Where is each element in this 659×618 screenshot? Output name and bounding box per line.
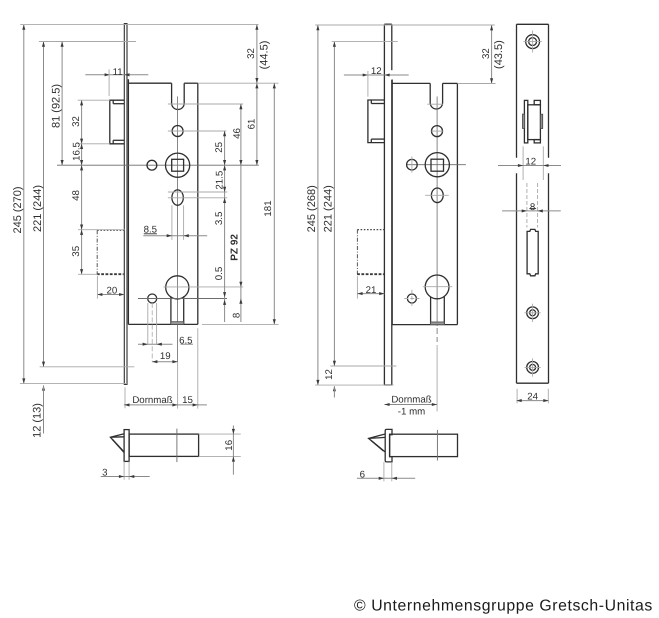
left lock hole left of cylinder — [148, 294, 157, 303]
left latch body — [129, 434, 199, 456]
svg-text:8: 8 — [530, 202, 535, 213]
dimension 32 (44.5) — [256, 25, 258, 84]
middle lock case outline — [391, 80, 393, 325]
extension line y274.3 — [78, 273, 98, 275]
dimension 8 cylinder cutout — [526, 183, 528, 228]
middle lock follower with square spindle hole — [425, 153, 449, 177]
middle latch faceplate channel profile — [385, 429, 392, 462]
dimension 245 (270) left — [23, 25, 25, 384]
svg-text:15: 15 — [182, 395, 193, 406]
svg-text:245 (270): 245 (270) — [12, 186, 24, 233]
extension line y41.5 left — [39, 41, 136, 43]
svg-text:© Unternehmensgruppe Gretsch-U: © Unternehmensgruppe Gretsch-Unitas — [354, 598, 653, 615]
svg-text:12: 12 — [371, 66, 382, 77]
bracket extension lines — [78, 99, 110, 101]
middle lock bracket on faceplate — [368, 100, 385, 143]
dimension 24 — [516, 389, 518, 404]
dimension 21.5 — [223, 165, 226, 170]
svg-text:12 (13): 12 (13) — [32, 403, 44, 438]
left latch bevel head — [110, 434, 124, 453]
dimension 6 latch — [383, 462, 385, 481]
left lock dashed cutout box — [97, 229, 124, 231]
left lock vertical centre line — [177, 96, 179, 362]
dimension 25 — [224, 131, 226, 322]
extension line y383.6 left — [20, 383, 127, 385]
middle lock oval hole — [431, 188, 443, 203]
svg-text:11: 11 — [113, 67, 123, 78]
middle Dornmass dimension — [436, 345, 438, 411]
svg-text:3.5: 3.5 — [214, 212, 225, 225]
svg-text:32: 32 — [246, 48, 257, 59]
dimension 16 latch — [199, 433, 241, 435]
left lock faceplate (Stulp) — [124, 24, 127, 385]
dimension 8.5 — [171, 205, 173, 240]
svg-text:32: 32 — [481, 48, 492, 59]
extension line y229.7 — [78, 229, 125, 231]
middle latch centre line — [436, 430, 438, 461]
svg-text:0.5: 0.5 — [214, 267, 225, 280]
svg-text:3: 3 — [102, 468, 107, 479]
left lock horizontal centre line (follower axis) — [57, 164, 259, 166]
svg-text:46: 46 — [232, 128, 243, 139]
dimension 181 — [273, 83, 275, 324]
svg-text:21: 21 — [366, 285, 377, 296]
middle lock upper hole — [432, 126, 443, 137]
dimension 12 keeper — [522, 146, 524, 180]
svg-text:245 (268): 245 (268) — [306, 185, 318, 232]
dimension 20 — [97, 294, 124, 296]
left lock cylinder centre extension line — [163, 286, 243, 288]
dimension 35 — [81, 230, 83, 275]
middle lock dashed cutout box — [357, 229, 384, 231]
left lock oval extension lines — [168, 191, 227, 193]
dimension 245 (268) middle — [317, 25, 319, 385]
svg-text:16: 16 — [224, 440, 235, 451]
svg-text:(44.5): (44.5) — [258, 41, 270, 70]
left lock slot-bottom extension line — [168, 103, 243, 105]
svg-text:61: 61 — [247, 119, 258, 130]
middle lock cylinder stem bottom bar — [431, 322, 445, 325]
dimension 12 bottom middle — [333, 386, 336, 391]
left lock top slot (U) — [172, 83, 185, 109]
case top extension middle — [457, 82, 459, 84]
svg-text:Dornmaß: Dornmaß — [391, 394, 431, 405]
svg-text:Dornmaß: Dornmaß — [132, 395, 172, 406]
left lock upper hole extension line — [168, 130, 226, 132]
left Dornmass dimension — [124, 387, 126, 408]
middle lock hole left of follower — [407, 159, 418, 170]
middle lock slot-bottom extension line — [427, 103, 443, 105]
svg-text:PZ 92: PZ 92 — [229, 234, 240, 261]
extension line y366.8 left — [40, 366, 135, 368]
svg-text:16.5: 16.5 — [71, 142, 82, 161]
middle latch body — [390, 434, 458, 456]
svg-text:24: 24 — [527, 392, 538, 403]
svg-text:25: 25 — [214, 142, 225, 153]
middle lock hole left of cylinder — [407, 294, 416, 303]
dimension 11 — [85, 74, 148, 76]
svg-text:12: 12 — [525, 156, 536, 167]
middle lock cylinder centre extension line — [423, 286, 453, 288]
left lock hole left of follower — [147, 160, 157, 170]
svg-text:(43.5): (43.5) — [493, 40, 505, 69]
middle latch bevel head — [369, 434, 386, 452]
left lock hole extension line — [138, 298, 227, 300]
svg-text:32: 32 — [71, 116, 82, 127]
left latch centre line — [176, 429, 178, 463]
strike plate bottom screw hole — [527, 362, 539, 374]
dimension 81 (92.5) — [61, 42, 63, 166]
middle lock faceplate — [383, 24, 385, 385]
dimension 48 — [81, 165, 83, 230]
middle lock top slot (U) — [430, 83, 442, 109]
svg-text:21.5: 21.5 — [215, 171, 226, 190]
left lock bracket on faceplate — [110, 100, 125, 144]
svg-text:181: 181 — [263, 200, 274, 216]
case bottom extension line right — [202, 323, 279, 325]
left lock case outline — [127, 79, 129, 324]
dimension 61 — [256, 83, 258, 165]
svg-text:81 (92.5): 81 (92.5) — [51, 84, 63, 128]
dimension 19 — [151, 303, 153, 362]
dimension 6.5 — [147, 303, 149, 344]
dimension 221 (244) left — [43, 42, 45, 367]
dimension 3 latch — [123, 461, 125, 479]
strike plate cylinder cutout — [527, 229, 538, 275]
case top extension line right — [198, 82, 279, 84]
svg-text:221 (244): 221 (244) — [32, 185, 44, 232]
left lock follower with square spindle hole — [166, 153, 190, 177]
svg-text:8: 8 — [231, 313, 242, 318]
svg-text:35: 35 — [71, 246, 82, 257]
dimension 0.5 — [223, 292, 226, 297]
middle lock vertical centre line — [436, 97, 438, 327]
strike plate latch keeper — [524, 100, 527, 142]
dimension 8 — [239, 282, 242, 287]
dimension 12 top middle — [344, 74, 409, 76]
svg-text:221 (244): 221 (244) — [323, 185, 335, 232]
left lock oval hole — [172, 190, 183, 205]
strike plate outline — [516, 24, 518, 158]
svg-text:48: 48 — [71, 190, 82, 201]
left lock cylinder stem bottom bar — [171, 322, 184, 325]
left lock upper hole — [172, 126, 183, 137]
dimension 46 — [240, 104, 242, 322]
dimension 221 (244) middle — [333, 42, 335, 366]
middle lock horizontal centre line — [406, 164, 466, 166]
dimension top extension line left — [20, 24, 258, 26]
dimension 21 middle — [356, 276, 358, 298]
svg-text:19: 19 — [160, 351, 171, 362]
middle lock cylinder hole (PZ) — [425, 275, 449, 299]
svg-text:12: 12 — [324, 369, 335, 380]
dimension 32 bracket — [81, 100, 83, 144]
left latch faceplate cross-section — [124, 430, 129, 462]
dimension 3.5 — [223, 198, 226, 203]
strike plate middle screw hole — [527, 307, 539, 319]
svg-text:20: 20 — [107, 286, 118, 297]
strike plate top screw hole — [526, 35, 540, 49]
svg-text:6.5: 6.5 — [179, 336, 192, 347]
svg-text:6: 6 — [360, 469, 365, 480]
dimension 12 (13) — [42, 385, 45, 390]
svg-text:-1 mm: -1 mm — [398, 406, 425, 417]
dimension 32 (43.5) — [491, 25, 493, 83]
dimension 16.5 — [81, 144, 83, 165]
left lock cylinder hole (PZ) — [166, 276, 189, 299]
keeper side pads — [523, 114, 525, 128]
